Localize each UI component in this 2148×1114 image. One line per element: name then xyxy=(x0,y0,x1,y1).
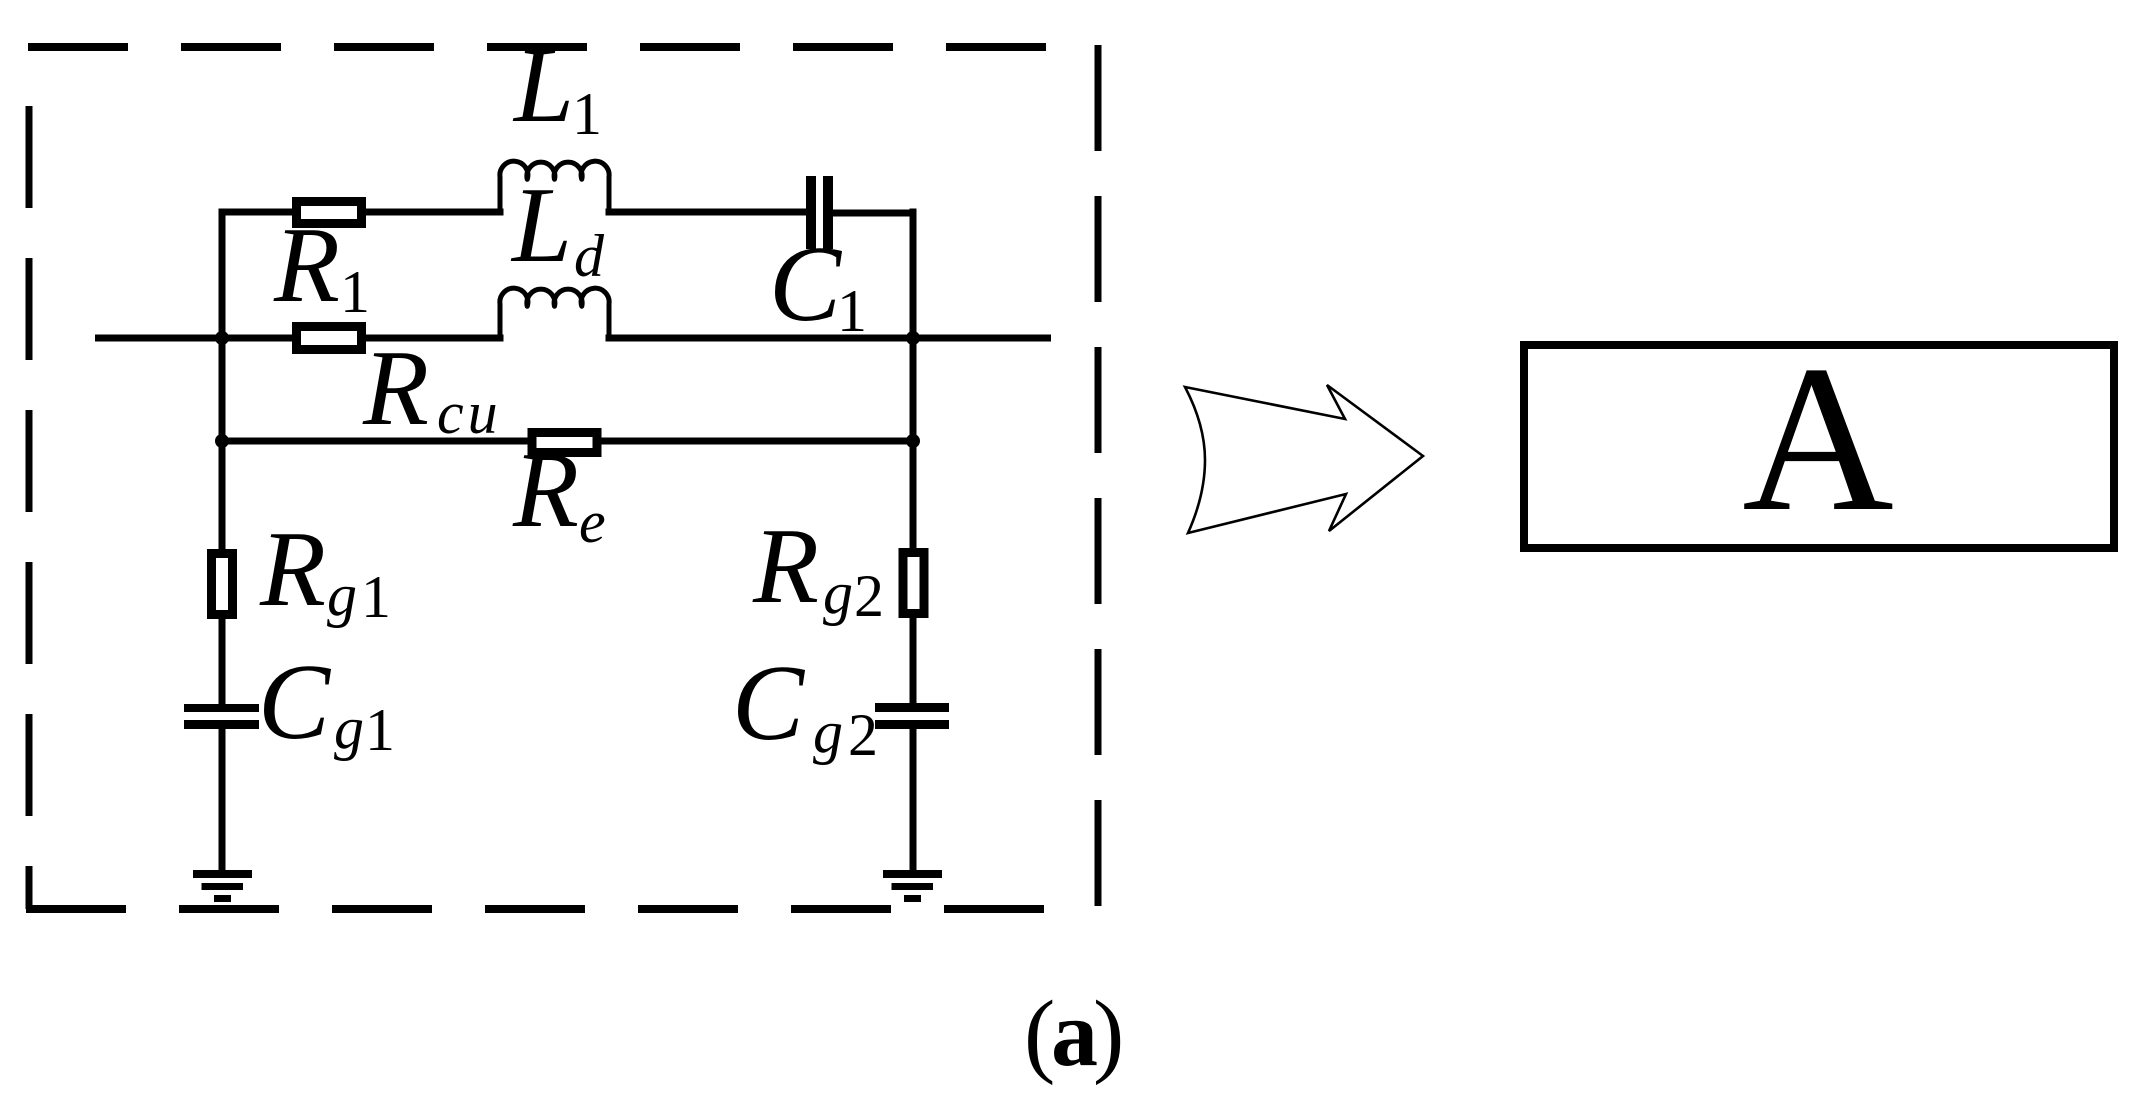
svg-text:1: 1 xyxy=(837,278,867,344)
svg-text:C: C xyxy=(732,644,806,763)
junction node right-bottom xyxy=(906,434,920,448)
svg-text:C: C xyxy=(769,225,843,344)
svg-text:2: 2 xyxy=(854,563,884,629)
svg-text:L: L xyxy=(510,166,572,285)
dashed enclosure boundary xyxy=(26,45,1098,911)
svg-text:1: 1 xyxy=(361,564,391,630)
svg-text:e: e xyxy=(579,489,606,555)
svg-text:A: A xyxy=(1742,323,1894,555)
svg-text:g: g xyxy=(823,560,853,626)
wire: top branch horizontal segments xyxy=(222,212,913,213)
resistor Rcu (box on middle wire) xyxy=(297,327,362,350)
ground (right) xyxy=(883,870,942,902)
resistor Rg2 (vertical box) xyxy=(903,553,924,614)
inductor Ld xyxy=(500,288,609,340)
wire: left vertical leg (top node to ground, broken at Cg1 gap) xyxy=(219,212,226,870)
svg-text:R: R xyxy=(752,507,819,626)
wire: right vertical leg (top node to ground, broken at Cg2 gap) xyxy=(910,212,917,870)
junction node left-bottom xyxy=(215,434,229,448)
block A box xyxy=(1524,345,2114,548)
svg-text:g: g xyxy=(327,562,357,628)
svg-text:1: 1 xyxy=(572,81,602,147)
capacitor Cg2 plates xyxy=(875,703,949,729)
svg-text:a: a xyxy=(1051,982,1098,1086)
big open arrow xyxy=(1185,385,1423,533)
svg-text:d: d xyxy=(574,223,605,289)
svg-text:g: g xyxy=(813,699,843,765)
svg-text:R: R xyxy=(273,206,340,325)
inductor L1 xyxy=(500,161,609,213)
svg-text:R: R xyxy=(512,431,579,550)
wire: middle main horizontal line xyxy=(99,335,1048,342)
svg-text:2: 2 xyxy=(848,702,878,768)
svg-text:1: 1 xyxy=(340,259,370,325)
resistor Rg1 (vertical box) xyxy=(212,554,233,615)
svg-text:): ) xyxy=(1093,982,1124,1086)
svg-text:R: R xyxy=(259,510,326,629)
wire: bottom branch horizontal line xyxy=(222,438,913,445)
capacitor C1 plates xyxy=(806,176,833,249)
svg-text:L: L xyxy=(512,26,574,145)
junction node right-middle xyxy=(906,331,920,345)
svg-text:R: R xyxy=(362,329,429,448)
resistor Re (box on bottom wire) xyxy=(532,433,597,453)
resistor R1 (top box) xyxy=(297,202,362,224)
capacitor Cg1 plates xyxy=(184,704,259,729)
junction node left-middle xyxy=(215,331,229,345)
svg-text:1: 1 xyxy=(365,697,395,763)
ground (left) xyxy=(193,870,252,902)
svg-text:g: g xyxy=(334,695,364,761)
svg-text:C: C xyxy=(258,643,332,762)
svg-text:cu: cu xyxy=(437,380,502,446)
